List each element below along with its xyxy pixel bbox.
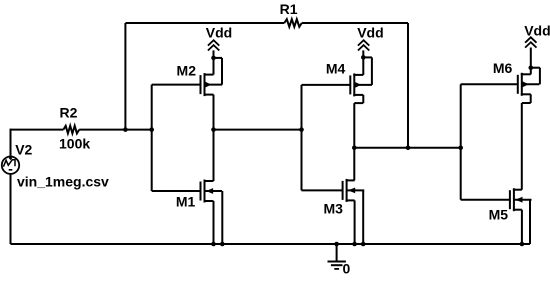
node junction M4 source/bulk at Vdd <box>361 55 366 60</box>
svg-text:0: 0 <box>343 260 351 276</box>
node junction input at stage1 bracket <box>149 127 154 132</box>
node junction M5 source on rail <box>520 242 525 247</box>
svg-text:Vdd: Vdd <box>357 24 383 40</box>
wire M5 bulk to rail right end <box>529 200 531 244</box>
wire stage1 gate bracket vertical <box>151 85 153 191</box>
wire M2 source up to Vdd <box>213 50 215 74</box>
node junction M6 source/bulk at Vdd <box>529 65 534 70</box>
wire M6 source up to Vdd <box>530 48 532 75</box>
wire stage2 gate bracket vertical <box>301 85 303 190</box>
svg-text:M6: M6 <box>493 60 513 76</box>
node junction M3 source on rail <box>352 242 357 247</box>
wire top left vertical (feedback) <box>124 23 126 130</box>
wire stage3 output vertical (M6 drain to M5 drain) <box>521 103 523 190</box>
wire M4 drain jog <box>354 95 363 103</box>
wire stage2 output vertical <box>353 103 355 180</box>
voltage source V2 <box>2 157 19 174</box>
node junction ground symbol on rail <box>334 242 339 247</box>
node A junction stage1 output <box>211 127 216 132</box>
transistor M3 <box>343 179 365 202</box>
node junction M2 source/bulk at Vdd <box>211 56 216 61</box>
wire ground rail <box>11 243 531 245</box>
node junction M1 source on rail <box>211 242 216 247</box>
wire V2 top to input row <box>10 129 12 157</box>
wire stage1 output vertical (M2 drain to M1 drain) <box>213 95 215 181</box>
ground 0 symbol <box>328 244 346 269</box>
wire M5 gate lead <box>461 199 510 201</box>
node junction M3 bulk on rail <box>361 242 366 247</box>
wire V2 bottom to ground rail <box>10 174 12 244</box>
wire top rail left of R1 <box>125 22 284 24</box>
svg-text:M3: M3 <box>323 201 343 217</box>
wire R2 to stage1 gate bracket <box>79 129 152 131</box>
wire M1 gate lead <box>152 190 201 192</box>
wire M2 bulk loop <box>214 58 223 85</box>
wire input row left lead <box>11 129 64 131</box>
wire M6 drain jog <box>522 94 531 103</box>
wire top rail right of R1 <box>302 22 408 24</box>
node junction M1 bulk on rail <box>220 242 225 247</box>
svg-text:M1: M1 <box>176 193 196 209</box>
svg-text:Vdd: Vdd <box>524 23 550 39</box>
wire stage3 gate bracket vertical <box>460 84 462 199</box>
resistor R2 <box>63 126 79 134</box>
wire M6 gate lead <box>461 83 518 85</box>
svg-text:V2: V2 <box>15 141 32 157</box>
wire M2 gate lead <box>152 84 201 86</box>
resistor R1 <box>284 19 302 27</box>
power Vdd (stage3) <box>525 37 536 47</box>
svg-text:M4: M4 <box>326 61 346 77</box>
svg-text:M2: M2 <box>177 63 197 79</box>
node junction at R2 output / feedback <box>123 127 128 132</box>
node B junction stage2 output <box>352 145 357 150</box>
svg-text:R1: R1 <box>280 1 298 17</box>
power Vdd (stage1) <box>208 40 219 50</box>
node junction stage1 output at stage2 bracket <box>299 127 304 132</box>
svg-text:100k: 100k <box>59 136 90 152</box>
wire M6 bulk loop <box>531 68 540 85</box>
wire stage2 output row <box>354 147 460 149</box>
wire M4 bulk loop <box>363 57 372 85</box>
transistor M2 <box>201 73 223 96</box>
wire M1 bulk to ground rail <box>221 191 223 244</box>
node junction stage2 output at stage3 bracket <box>458 145 463 150</box>
node junction R1 feedback at node B row <box>406 145 411 150</box>
wire M4 gate lead <box>302 84 351 86</box>
wire M4 source up to Vdd <box>362 50 364 75</box>
svg-text:vin_1meg.csv: vin_1meg.csv <box>17 173 109 189</box>
power Vdd (stage2) <box>358 40 369 50</box>
wire top right vertical (feedback to node B) <box>407 23 409 148</box>
wire stage1 output row <box>214 129 302 131</box>
wire M3 bulk to ground rail <box>362 190 364 244</box>
wire M1 source to ground rail <box>213 201 215 244</box>
svg-text:R2: R2 <box>60 105 78 121</box>
wire M5 source to ground rail <box>521 210 523 244</box>
wire M3 gate lead <box>302 189 343 191</box>
svg-text:Vdd: Vdd <box>206 24 232 40</box>
transistor M4 <box>350 73 372 96</box>
wire M3 source to ground rail <box>354 200 356 244</box>
transistor M6 <box>518 73 540 96</box>
svg-text:M5: M5 <box>489 207 509 223</box>
transistor M1 <box>201 180 223 203</box>
transistor M5 <box>510 188 532 211</box>
